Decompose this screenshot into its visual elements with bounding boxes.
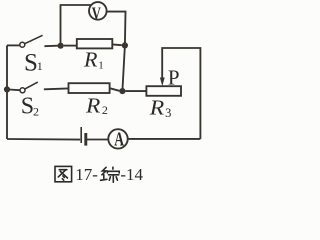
svg-text:R: R xyxy=(149,96,165,120)
svg-text:V: V xyxy=(92,5,102,25)
svg-text:R: R xyxy=(85,93,101,117)
svg-text:R: R xyxy=(83,48,97,71)
svg-text:2: 2 xyxy=(102,103,108,117)
svg-text:17-: 17- xyxy=(75,165,98,184)
svg-text:1: 1 xyxy=(37,59,43,73)
svg-text:P: P xyxy=(168,66,180,90)
svg-text:-14: -14 xyxy=(120,165,143,184)
svg-text:3: 3 xyxy=(165,106,171,120)
svg-text:1: 1 xyxy=(98,60,104,72)
svg-text:A: A xyxy=(114,128,124,150)
svg-text:2: 2 xyxy=(33,104,39,118)
